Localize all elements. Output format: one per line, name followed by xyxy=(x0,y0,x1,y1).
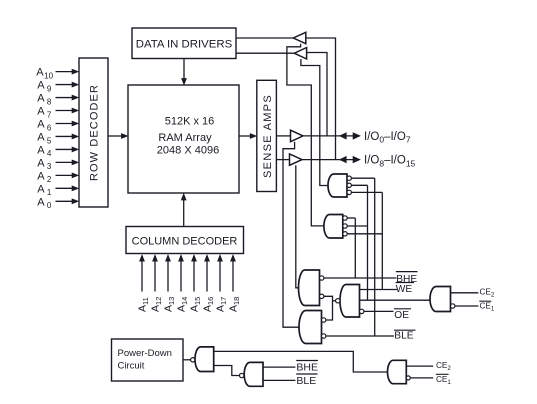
svg-text:BHE: BHE xyxy=(296,362,318,374)
svg-text:A11: A11 xyxy=(137,297,151,312)
wire G2 input CE net xyxy=(347,225,367,227)
wire BHE line xyxy=(324,277,397,279)
wire sense amps to U3 xyxy=(276,135,290,137)
svg-text:CE1: CE1 xyxy=(436,375,451,386)
buffer output U4 xyxy=(290,154,303,165)
wire G8 BHE output xyxy=(263,366,295,368)
buffer input U2 xyxy=(294,48,306,60)
label OE xyxy=(394,308,411,310)
svg-text:CE1: CE1 xyxy=(480,302,495,313)
wire G7 to G8 xyxy=(214,366,240,376)
svg-text:2048 X 4096: 2048 X 4096 xyxy=(157,144,219,156)
wire G9 CE1 output xyxy=(410,377,433,379)
wire G9 CE2 output xyxy=(406,365,433,367)
label BLE bottom xyxy=(296,373,317,375)
node I/O0-I/O7 bus xyxy=(303,135,354,137)
input A14 xyxy=(180,261,182,292)
svg-text:A18: A18 xyxy=(228,297,242,312)
and-gate G4 xyxy=(340,285,360,318)
wire column decoder to RAM array xyxy=(183,200,185,227)
svg-text:A5: A5 xyxy=(37,131,52,145)
wire G1 input BLE net xyxy=(351,177,374,179)
wire U2 enable from G1 xyxy=(301,59,328,186)
block COLUMN DECODER xyxy=(126,227,244,254)
svg-text:A2: A2 xyxy=(37,170,52,184)
wire G1 input WE net xyxy=(351,191,382,193)
buffer input U1 xyxy=(293,32,306,43)
input A18 xyxy=(232,261,234,292)
wire U3 enable from G5 xyxy=(283,142,299,328)
wire CE1 input xyxy=(455,305,479,307)
svg-text:A15: A15 xyxy=(189,297,203,312)
svg-text:A4: A4 xyxy=(37,144,52,158)
wire BLE line xyxy=(326,335,394,337)
svg-text:A9: A9 xyxy=(37,80,52,94)
svg-text:CE2: CE2 xyxy=(436,361,451,372)
buffer output U3 xyxy=(291,130,304,142)
block DATA IN DRIVERS xyxy=(132,28,236,59)
wire G4 output to net xyxy=(333,300,336,302)
svg-text:OE: OE xyxy=(394,310,409,321)
wire data-in driver input 1 xyxy=(236,37,293,39)
wire power-down box to G7 xyxy=(183,359,191,361)
input A11 xyxy=(141,261,143,292)
wire net V4 WE xyxy=(381,192,383,289)
svg-text:Power-Down: Power-Down xyxy=(118,348,172,359)
svg-text:BLE: BLE xyxy=(394,330,413,341)
and-gate G6 xyxy=(430,287,451,312)
svg-text:A0: A0 xyxy=(37,196,52,210)
svg-text:A7: A7 xyxy=(37,106,52,120)
wire OE line xyxy=(364,310,394,312)
node I/O8-I/O15 bus xyxy=(302,159,354,161)
wire G7 to G9 xyxy=(214,351,388,372)
svg-text:I/O8–I/O15: I/O8–I/O15 xyxy=(364,155,416,169)
svg-text:ROW DECODER: ROW DECODER xyxy=(89,84,101,181)
svg-text:A10: A10 xyxy=(36,67,53,81)
label CE1 xyxy=(479,300,491,302)
input A16 xyxy=(206,261,208,292)
wire U1 enable from G2 xyxy=(287,44,324,226)
wire net V1 to BHE xyxy=(354,218,356,278)
block ROW DECODER xyxy=(79,58,108,207)
svg-text:I/O0–I/O7: I/O0–I/O7 xyxy=(364,131,411,145)
svg-text:SENSE AMPS: SENSE AMPS xyxy=(262,94,274,178)
label CE1 bottom xyxy=(436,373,449,375)
svg-text:A3: A3 xyxy=(37,157,52,171)
svg-text:WE: WE xyxy=(396,284,413,295)
and-gate G1 xyxy=(328,174,347,197)
and-gate G3 xyxy=(298,270,319,306)
and-gate G5 xyxy=(299,311,322,344)
input A12 xyxy=(154,261,156,292)
svg-text:A6: A6 xyxy=(37,118,52,132)
wire G8 BLE output xyxy=(263,379,295,381)
svg-text:RAM Array: RAM Array xyxy=(158,132,212,144)
block Power-Down Circuit xyxy=(112,339,184,381)
svg-text:BHE: BHE xyxy=(396,274,417,285)
block SENSE AMPS xyxy=(257,80,277,191)
wire U1 input from I/O8-15 bus xyxy=(306,38,336,160)
svg-text:A12: A12 xyxy=(150,297,164,312)
and-gate G8 xyxy=(240,373,244,377)
svg-text:A16: A16 xyxy=(202,297,216,312)
svg-text:COLUMN DECODER: COLUMN DECODER xyxy=(132,236,238,248)
wire data-in driver input 2 xyxy=(236,52,294,54)
wire U2 input from I/O0-7 bus xyxy=(307,53,327,136)
label BHE bottom xyxy=(296,360,318,362)
wire CE2 input xyxy=(451,292,479,294)
wire RAM array to sense amps xyxy=(239,135,251,137)
label BLE xyxy=(394,329,416,331)
block RAM array xyxy=(128,85,239,193)
and-gate G7 xyxy=(191,358,195,362)
svg-text:A13: A13 xyxy=(163,297,177,312)
wire sense amps to U4 xyxy=(276,159,289,161)
wire G1 input CE net xyxy=(351,184,367,186)
svg-text:A17: A17 xyxy=(215,297,229,312)
wire net V2 CE xyxy=(367,185,369,300)
svg-text:A8: A8 xyxy=(37,93,52,107)
wire U4 enable from G3 xyxy=(296,165,299,287)
svg-text:A14: A14 xyxy=(176,297,190,312)
label BHE xyxy=(396,271,418,273)
input A17 xyxy=(219,261,221,292)
wire data in drivers to RAM array xyxy=(183,59,185,80)
wire G2 input BHE net xyxy=(347,217,355,219)
wire WE line xyxy=(360,289,398,291)
svg-text:DATA IN DRIVERS: DATA IN DRIVERS xyxy=(136,38,233,50)
wire CE line G4 to G6 xyxy=(360,299,431,301)
input A13 xyxy=(167,261,169,292)
wire net V3 BLE xyxy=(374,178,376,336)
svg-text:Circuit: Circuit xyxy=(118,361,145,372)
and-gate G2 xyxy=(324,215,343,239)
wire row decoder to RAM array xyxy=(108,135,122,137)
label WE xyxy=(396,282,414,284)
svg-text:512K x 16: 512K x 16 xyxy=(165,116,215,128)
and-gate G9 xyxy=(388,360,407,383)
svg-text:BLE: BLE xyxy=(296,375,316,387)
svg-text:A1: A1 xyxy=(37,183,52,197)
input A15 xyxy=(193,261,195,292)
wire G3 to G5/G4 net xyxy=(324,296,333,320)
wire G2 input WE net xyxy=(347,233,382,235)
svg-text:CE2: CE2 xyxy=(480,287,495,298)
